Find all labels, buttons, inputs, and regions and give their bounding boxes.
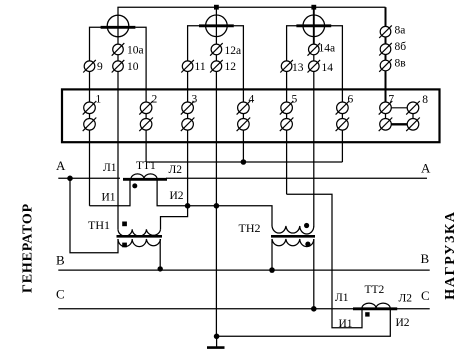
node phase A line [58,177,120,179]
meter element W1 [101,15,136,37]
TT2 polarity mark [365,312,369,316]
wire column 5 through block to jog 194 [286,89,288,194]
svg-text:НАГРУЗКА: НАГРУЗКА [443,210,458,299]
svg-text:14: 14 [322,62,334,74]
svg-text:ТН2: ТН2 [239,221,261,235]
wire W1 right branch to column 2 [135,27,146,89]
svg-text:8в: 8в [395,57,407,69]
svg-text:Л2: Л2 [399,293,413,305]
block terminal 5 [280,101,294,115]
svg-text:12: 12 [225,61,237,73]
svg-text:12а: 12а [225,45,242,57]
terminal 8a [379,25,392,38]
wire 14a-14 segment [313,36,315,89]
svg-text:14а: 14а [319,43,336,55]
terminal 14a [308,43,321,56]
svg-text:13: 13 [292,62,304,74]
svg-text:И2: И2 [170,190,184,202]
terminal 10 [112,60,125,73]
labels TT2 [335,284,412,330]
TH1 polarity mark top [122,222,127,227]
node phase B line [58,269,429,271]
svg-text:2: 2 [152,93,158,105]
labels block numbers [96,93,429,106]
wire TT1 secondary I2 to common node [157,179,272,226]
terminal 8b [379,43,392,56]
wire ground stub [216,336,218,347]
block terminal 6 [336,101,350,115]
labels TH [88,218,261,235]
svg-text:ТТ1: ТТ1 [136,160,156,172]
svg-text:1: 1 [96,93,102,105]
terminal 13 [280,60,293,73]
svg-text:С: С [56,287,65,302]
wire column 1 through block to I1 jog [89,89,91,205]
wire phase A tap to TH1 primary [70,178,118,252]
junction on top rail at W2 [214,5,219,10]
junction ground node [214,334,220,340]
voltage transformer TH2 [271,226,315,247]
TH1 polarity mark bottom [122,243,127,248]
wire 8a column feed (bold) [385,7,387,101]
wire meter W3 drop (bold) [313,7,315,44]
terminal 11 [181,60,194,73]
junction node A tap [67,176,73,182]
TH2 polarity dot top [304,223,309,228]
junction TH1 to phase B [158,266,163,271]
junction TH2 to phase B [269,267,275,273]
wire voltage V1 drop through block to TH1 [117,89,119,229]
svg-text:И1: И1 [102,192,116,204]
junction node 206 at column 3 [185,203,191,209]
meter element W2 [199,15,234,37]
labels top terminals [97,25,406,75]
junction node 206 at V2 [214,203,220,209]
labels phase letters [56,158,431,303]
wire W3 right branch to column 6 [331,26,342,90]
block terminal 3 [181,101,195,115]
wire column 4 through block to common 161 [242,89,244,162]
labels TT1 [102,160,184,204]
svg-text:11: 11 [195,61,206,73]
svg-text:ТН1: ТН1 [88,218,110,232]
wire TH1 secondary right jog [161,206,188,230]
wire TH1 primary right to phase B [159,239,161,270]
test terminal block [62,89,440,142]
svg-text:7: 7 [388,93,394,105]
svg-text:3: 3 [192,93,198,105]
node phase C line [58,308,429,310]
junction on top rail at W3 [311,5,316,10]
terminal 9 [83,60,96,73]
current transformer TT1 [123,174,167,179]
svg-text:8: 8 [422,94,428,106]
block terminal 7 bridge [386,102,414,130]
terminal 14 [308,60,321,73]
svg-text:8а: 8а [395,25,406,37]
terminal 8v [379,59,392,72]
TT1 polarity dot [132,183,137,188]
svg-text:8б: 8б [395,41,407,53]
wire TH2 primary left to phase B [271,239,273,270]
terminal 12 [210,60,223,73]
wire voltage V2 drop through block to ground node [215,89,217,336]
svg-text:С: С [421,288,430,303]
ground symbol [207,346,225,349]
block terminal 4 [237,101,251,115]
svg-text:10: 10 [127,61,139,73]
svg-text:Л1: Л1 [103,162,117,174]
voltage transformer TH1 [117,229,163,246]
terminal 12a [210,43,223,56]
wire meter W2 drop [215,7,217,89]
wire TH2 primary right to phase C [313,239,315,309]
wire voltage V3 drop through block to TH2 [313,89,315,226]
svg-text:Л2: Л2 [169,164,183,176]
wire meter W1 drop [117,7,119,89]
svg-text:А: А [421,161,431,176]
svg-text:ГЕНЕРАТОР: ГЕНЕРАТОР [21,203,36,293]
meter element W3 [296,15,331,37]
wire TT1 secondary I1 jog [90,179,131,206]
junction TH2 to phase C [311,306,317,312]
wire W1 left branch to terminal 9 [90,27,102,89]
terminal 10a [112,43,125,56]
current transformer TT2 [353,303,397,309]
svg-text:9: 9 [97,61,103,73]
TH2 polarity dot bottom [305,242,310,247]
wire TT2 I2 to ground rail [217,309,391,337]
svg-text:4: 4 [249,93,255,105]
wire W2 left branch to terminal 11 [188,26,200,90]
svg-text:ТТ2: ТТ2 [365,284,385,296]
wire W2 right branch to column 4 [234,26,244,90]
svg-text:10а: 10а [127,44,144,56]
wire W3 left branch to terminal 13 [287,26,297,90]
svg-text:И2: И2 [396,317,410,329]
svg-text:И1: И1 [339,318,353,330]
block terminal 2 [139,101,153,115]
junction common 161 at column 4 [241,159,247,165]
wire column 2 through block to common 161 [145,89,147,162]
wire common return 161 [146,161,342,163]
block terminal 1 [83,101,97,115]
wire top rail [117,6,385,8]
block terminal 8 [406,101,420,115]
svg-text:Л1: Л1 [335,292,349,304]
svg-text:6: 6 [348,93,354,105]
svg-text:В: В [56,253,65,268]
svg-text:В: В [421,251,430,266]
wire column 3 through block to node 206 [187,89,189,205]
wire column 6 through block to common 161 [341,89,343,162]
svg-text:А: А [56,158,66,173]
wire column 5 jog to TT2 I1 [287,194,362,327]
svg-text:5: 5 [292,93,298,105]
